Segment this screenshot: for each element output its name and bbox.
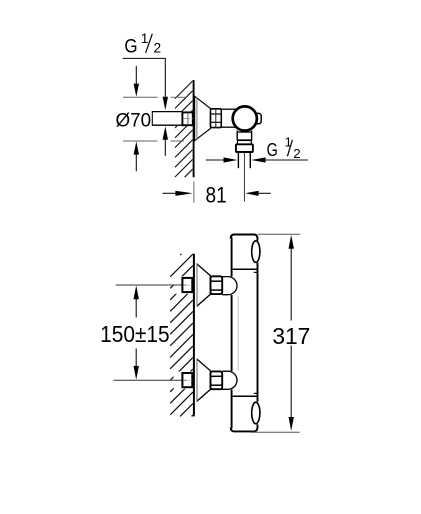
bar right edge segments bbox=[257, 238, 259, 241]
outlet nut bbox=[236, 144, 253, 152]
escutcheon inner edge line bbox=[196, 97, 198, 140]
underline of G 1/2 label bbox=[123, 57, 166, 59]
bottom connection: hex nut bbox=[211, 371, 223, 389]
dim leader column B (G1/2 upper arrow) bbox=[163, 58, 168, 110]
top cap joint line bbox=[231, 268, 258, 270]
svg-text:1: 1 bbox=[284, 135, 291, 150]
O70 lower arrow (column A) bbox=[134, 141, 139, 171]
wall hatching (bottom view) bbox=[170, 254, 193, 416]
dim 317: dimension line + arrows bbox=[289, 235, 294, 431]
dim 150+-15: top extension line bbox=[116, 284, 182, 286]
valve body cylinder (top view) bbox=[221, 109, 238, 127]
threaded wall fitting (square, top view) bbox=[182, 112, 192, 125]
label G 1/2 (top left) bbox=[124, 31, 161, 58]
wall face line (bottom view) bbox=[193, 254, 195, 417]
top cone inner edge line bbox=[196, 264, 198, 306]
valve body circle (top view) bbox=[233, 106, 257, 130]
top connection: escutcheon cone bbox=[197, 264, 211, 307]
bottom connection: bulge into bar bbox=[222, 371, 237, 389]
bottom cone inner edge line bbox=[196, 359, 198, 401]
thermostat bar body bbox=[231, 235, 260, 432]
svg-text:317: 317 bbox=[272, 323, 310, 349]
dim 317: bottom extension line bbox=[250, 431, 299, 433]
svg-text:Ø70: Ø70 bbox=[116, 110, 152, 131]
outlet neck below circle bbox=[237, 131, 252, 141]
escutcheon cone (top view) bbox=[195, 96, 211, 141]
extension line 2 (O70 bottom edge) bbox=[123, 140, 158, 142]
supply pipe (white mask + walls) bbox=[152, 111, 182, 126]
top connection: hex nut bbox=[211, 276, 223, 294]
dim leader column A (O70 upper arrow) bbox=[134, 66, 139, 97]
svg-text:150±15: 150±15 bbox=[100, 321, 170, 347]
svg-text:2: 2 bbox=[293, 146, 300, 161]
hex nut (top view) bbox=[211, 109, 222, 128]
bar bottom cap edge bbox=[231, 428, 258, 432]
outlet pipe centerline bbox=[243, 153, 245, 202]
bottom cap tick bbox=[254, 392, 258, 394]
top connection: wall fitting square bbox=[182, 278, 192, 292]
side stop button bbox=[252, 113, 261, 123]
dim 81: wall extension line bbox=[193, 181, 195, 202]
wall hatching (top view) bbox=[175, 81, 193, 177]
top knob ellipse bbox=[252, 241, 260, 263]
dim 150+-15: dimension line + arrows bbox=[134, 285, 139, 379]
svg-text:G: G bbox=[267, 139, 278, 160]
wall face line (top view) bbox=[193, 80, 195, 177]
extension line 1 (O70 top edge) bbox=[123, 96, 158, 98]
outlet pipe (down) bbox=[238, 152, 250, 168]
svg-text:1: 1 bbox=[141, 31, 149, 46]
bar top cap edge bbox=[231, 235, 258, 239]
bottom connection: wall fitting square bbox=[182, 373, 192, 387]
G1/2 lower arrow (column B) bbox=[163, 126, 168, 156]
G1/2 right arrows row bbox=[206, 157, 308, 162]
svg-text:G: G bbox=[124, 37, 137, 58]
outlet ring bbox=[238, 140, 252, 144]
svg-text:81: 81 bbox=[206, 182, 227, 207]
label G 1/2 (right, outlet) bbox=[267, 135, 301, 161]
svg-text:2: 2 bbox=[153, 41, 161, 56]
dim 317: top extension line bbox=[258, 233, 300, 235]
hatch dot at wall top bbox=[180, 254, 182, 256]
bar left edge segments bbox=[231, 238, 233, 277]
top cap tick bbox=[254, 271, 258, 273]
bottom connection: escutcheon cone bbox=[197, 359, 211, 402]
top connection: bulge into bar bbox=[222, 277, 237, 295]
dim 81 arrows bbox=[163, 191, 271, 196]
dim 150+-15: bottom extension line bbox=[114, 379, 182, 381]
white margin around wall fittings bbox=[174, 276, 194, 294]
bottom knob ellipse bbox=[252, 402, 260, 424]
bottom cap joint line bbox=[231, 395, 258, 397]
bar body highlight line bbox=[237, 296, 239, 370]
